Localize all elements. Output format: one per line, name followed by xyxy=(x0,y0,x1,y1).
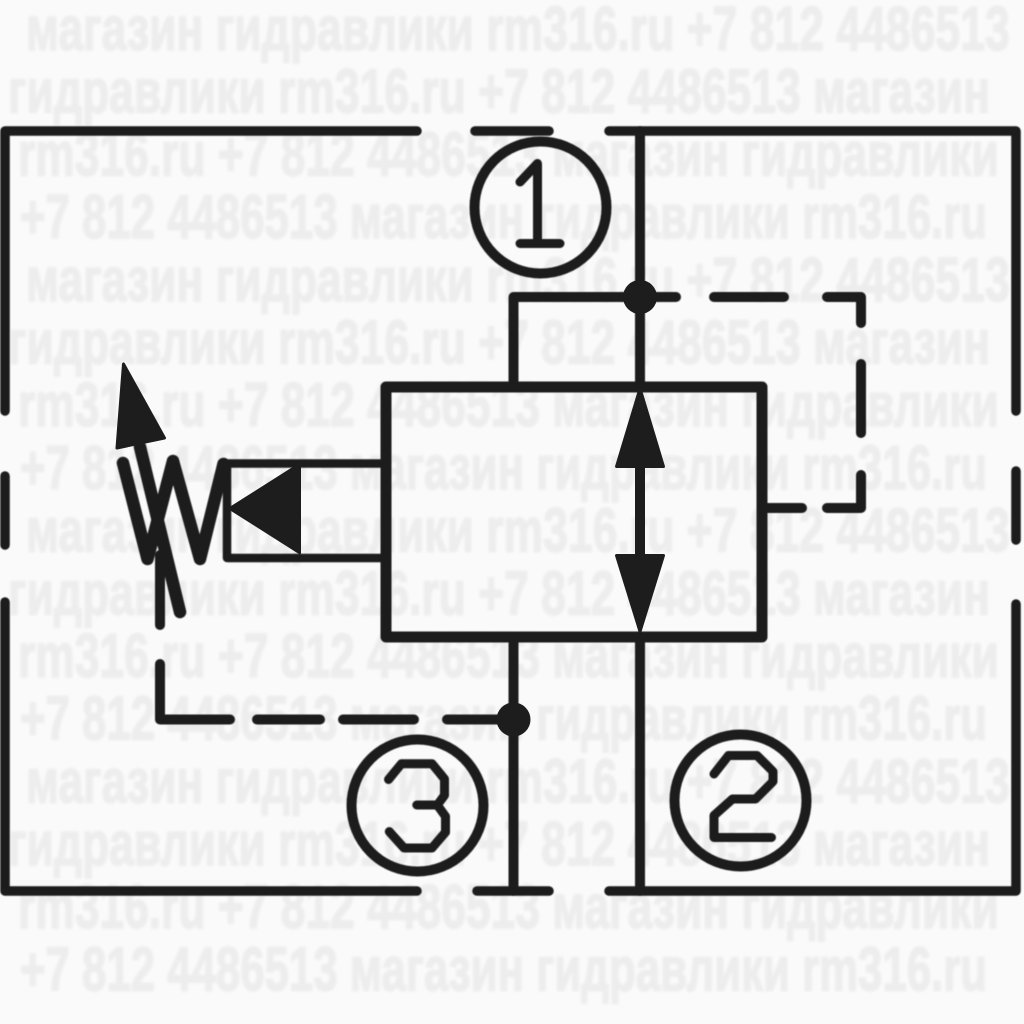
node 3 junction dot xyxy=(497,703,531,737)
svg-text:+7 812 4486513 магазин гидравл: +7 812 4486513 магазин гидравлики rm316.… xyxy=(20,935,987,1004)
valve body U1 xyxy=(386,387,762,637)
envelope border top middle dash xyxy=(475,126,549,136)
port circle 3 xyxy=(352,740,484,872)
wire pilot branch to valve top xyxy=(514,297,641,387)
svg-text:гидравлики rm316.ru +7 812 448: гидравлики rm316.ru +7 812 4486513 магаз… xyxy=(8,308,990,377)
port circle 1 xyxy=(475,142,607,274)
svg-text:+7 812 4486513 магазин гидравл: +7 812 4486513 магазин гидравлики rm316.… xyxy=(20,183,987,252)
digit 1 xyxy=(520,164,560,244)
envelope border top-left corner segment xyxy=(5,131,417,411)
dashed pilot line right xyxy=(640,297,861,508)
valve flow arrow up xyxy=(617,389,664,467)
svg-text:магазин гидравлики rm316.ru +7: магазин гидравлики rm316.ru +7 812 44865… xyxy=(26,0,1010,64)
wire port 2 line xyxy=(635,637,645,891)
pilot poppet triangle xyxy=(229,464,300,554)
svg-text:rm316.ru +7 812 4486513 магази: rm316.ru +7 812 4486513 магазин гидравли… xyxy=(18,873,999,942)
adjustment arrow head xyxy=(117,364,165,448)
valve flow arrow shaft xyxy=(635,455,645,565)
envelope border bottom-right corner segment xyxy=(609,604,1016,891)
dashed drain line left xyxy=(160,555,513,720)
envelope border bottom middle dash xyxy=(477,886,549,896)
envelope border left middle dash xyxy=(0,476,10,545)
svg-text:гидравлики rm316.ru +7 812 448: гидравлики rm316.ru +7 812 4486513 магаз… xyxy=(8,810,990,879)
digit 2 xyxy=(714,756,773,838)
svg-text:rm316.ru +7 812 4486513 магази: rm316.ru +7 812 4486513 магазин гидравли… xyxy=(18,371,999,440)
spring xyxy=(123,461,224,559)
adjustment arrow shaft xyxy=(140,447,180,612)
envelope border bottom-left corner segment xyxy=(5,602,417,891)
envelope border right middle dash xyxy=(1011,471,1021,540)
valve flow arrow down xyxy=(617,556,664,632)
pilot relief box xyxy=(227,464,386,559)
envelope border top-right corner segment xyxy=(609,131,1016,411)
port circle 2 xyxy=(675,735,807,867)
node 1 junction dot xyxy=(623,280,657,314)
wire port 1 line xyxy=(635,131,645,387)
svg-text:гидравлики rm316.ru +7 812 448: гидравлики rm316.ru +7 812 4486513 магаз… xyxy=(8,58,990,127)
digit 3 xyxy=(389,764,446,848)
wire drain line valve bottom to port 3 xyxy=(509,637,519,891)
